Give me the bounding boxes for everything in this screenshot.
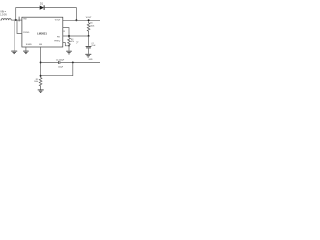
capacitor C4 [59,61,60,64]
diode D1 [40,5,44,10]
wire tap to pin PGND [17,20,22,33]
svg-text:100pF: 100pF [58,66,64,68]
wire pin VDD branch elbow [63,28,69,36]
wire input cap branch C1 [13,20,15,51]
wire EN node to cap C4 [41,61,59,63]
capacitor C2 [86,46,92,48]
capacitor C2 value label [91,43,96,47]
capacitor C2 side label [76,41,78,45]
svg-text:1.5-5V: 1.5-5V [0,15,7,17]
wire riser SW node to top rail [16,8,40,20]
svg-text:LM2621: LM2621 [37,31,47,35]
svg-text:VOUT: VOUT [55,20,62,22]
svg-text:PGND: PGND [23,32,30,34]
resistor R3 [68,37,71,46]
node FREQ junction dot [68,45,70,47]
svg-text:C4 100pF: C4 100pF [56,60,65,62]
ground G5 [66,51,72,54]
svg-text:+: + [76,43,77,45]
svg-text:EN: EN [39,44,42,46]
wire R3 to ground [68,46,70,51]
svg-text:R1: R1 [90,23,92,25]
inductor L1 [1,19,12,21]
svg-text:100k: 100k [34,81,38,83]
node R1 bottom junction dot [88,35,90,37]
wire pin FB to divider [63,35,89,37]
resistor R2 value label [34,79,38,83]
node feedback loop junction dot [72,61,74,63]
node R2 top junction dot [40,75,42,77]
svg-text:340k: 340k [90,26,94,28]
capacitor C2 wire from R1 node [88,36,90,46]
wire diode cathode to output elbow [44,8,76,21]
pin tick SW [18,17,20,22]
op-amp U1 LM2621 box [22,17,63,47]
svg-text:FREQ: FREQ [54,41,60,43]
node SW junction dot [15,19,17,21]
wire loop down and left to R2 node [41,62,73,75]
resistor R3 value label [71,39,74,43]
wire inductor to IC pin SW [11,19,22,21]
resistor R1 [87,21,90,35]
wire pin SGND stub [25,47,27,51]
svg-text:47k: 47k [71,41,74,43]
svg-text:SW: SW [23,19,26,21]
wire pin FREQ [63,43,69,46]
resistor R2 [39,78,42,90]
ground G3 [38,90,44,93]
node divider junction dot [68,35,70,37]
resistor R1 value label [90,23,94,28]
ground G2 [23,51,29,54]
wire pin EN down [40,47,42,78]
node VOUT elbow junction dot [75,19,77,21]
node EN wire junction dot [40,61,42,63]
svg-text:SGND: SGND [26,44,33,46]
svg-text:C3: C3 [63,31,65,33]
input label VIN [0,12,7,17]
wire C2 to ground [88,48,90,54]
node R1 top junction dot [88,19,90,21]
ground G4 [85,54,91,57]
svg-text:VOUT: VOUT [86,17,93,19]
svg-text:VIN =: VIN = [0,12,6,14]
wire output rail VOUT [63,19,100,21]
wire cap C4 to right edge [60,61,100,63]
ground G1 [11,51,17,54]
svg-text:GND: GND [89,59,94,61]
